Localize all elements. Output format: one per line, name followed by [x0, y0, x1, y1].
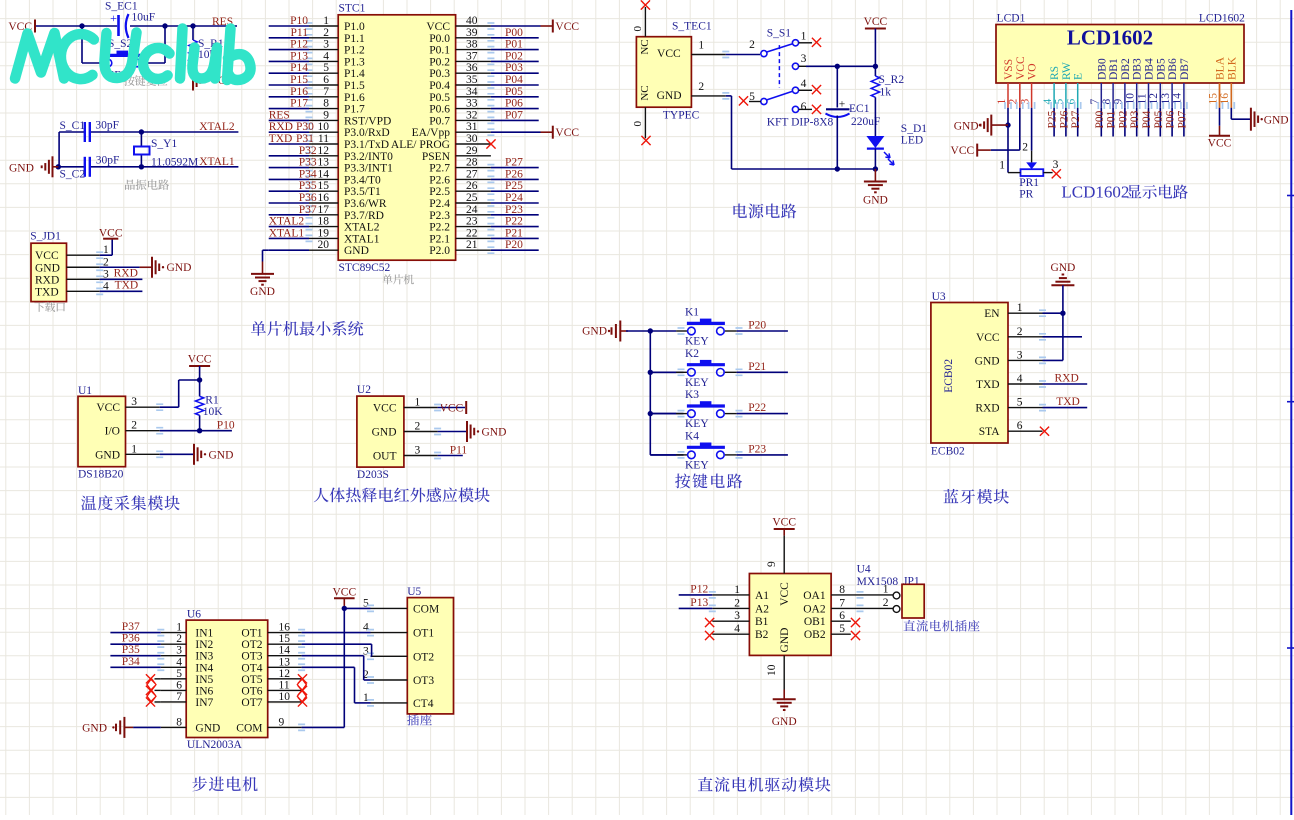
svg-text:VCC: VCC [96, 402, 120, 414]
svg-text:1: 1 [415, 397, 421, 409]
svg-text:OT1: OT1 [413, 628, 434, 640]
svg-text:P13: P13 [690, 597, 708, 609]
svg-text:VCC: VCC [772, 517, 796, 529]
svg-text:STA: STA [979, 426, 1000, 438]
svg-text:GND: GND [863, 195, 888, 207]
svg-text:DB1: DB1 [1108, 58, 1120, 80]
svg-text:BLA: BLA [1215, 56, 1227, 80]
svg-text:GND: GND [657, 90, 682, 102]
svg-text:10K: 10K [203, 406, 224, 418]
svg-text:P16: P16 [290, 86, 308, 98]
svg-text:21: 21 [466, 239, 478, 251]
svg-text:ALE/ PROG: ALE/ PROG [391, 139, 450, 151]
svg-text:4: 4 [1017, 373, 1023, 385]
svg-text:2: 2 [131, 420, 137, 432]
svg-text:12: 12 [318, 145, 330, 157]
svg-text:OT2: OT2 [241, 639, 262, 651]
svg-text:LCD1602: LCD1602 [1067, 25, 1153, 49]
svg-text:6: 6 [801, 101, 807, 113]
svg-text:ECB02: ECB02 [931, 446, 965, 458]
svg-text:4: 4 [176, 656, 182, 668]
svg-text:GND: GND [209, 450, 234, 462]
svg-text:+: + [110, 11, 117, 25]
svg-text:GND: GND [1264, 115, 1289, 127]
svg-text:P01: P01 [1106, 110, 1118, 128]
svg-text:XTAL1: XTAL1 [199, 156, 235, 168]
svg-text:IN1: IN1 [195, 628, 213, 640]
svg-text:P03: P03 [1129, 110, 1141, 128]
svg-text:PR: PR [1019, 189, 1033, 201]
svg-text:P2.5: P2.5 [429, 186, 450, 198]
svg-text:P14: P14 [290, 62, 308, 74]
svg-text:5: 5 [323, 62, 329, 74]
svg-text:P21: P21 [748, 361, 766, 373]
svg-text:GND: GND [167, 262, 192, 274]
svg-text:30pF: 30pF [95, 120, 119, 132]
svg-text:VCC: VCC [332, 587, 356, 599]
svg-text:P0.0: P0.0 [429, 33, 450, 45]
svg-text:P26: P26 [1058, 110, 1070, 128]
svg-text:P1.3: P1.3 [344, 56, 365, 68]
svg-text:15: 15 [318, 180, 330, 192]
svg-text:LCD1602: LCD1602 [1061, 183, 1129, 202]
svg-text:4: 4 [323, 50, 329, 62]
svg-text:3: 3 [1019, 99, 1031, 105]
svg-text:STC89C52: STC89C52 [339, 262, 391, 274]
svg-text:P23: P23 [748, 443, 766, 455]
svg-text:A2: A2 [755, 603, 769, 615]
svg-text:4: 4 [734, 623, 740, 635]
svg-text:6: 6 [323, 74, 329, 86]
svg-text:XTAL1: XTAL1 [269, 227, 305, 239]
svg-text:P36: P36 [299, 192, 317, 204]
svg-text:S_C1: S_C1 [60, 120, 86, 132]
svg-text:32: 32 [466, 109, 478, 121]
svg-text:P12: P12 [690, 584, 708, 596]
svg-text:1: 1 [734, 584, 740, 596]
svg-text:5: 5 [1017, 397, 1023, 409]
svg-text:P01: P01 [505, 39, 523, 51]
svg-text:P03: P03 [505, 62, 523, 74]
svg-text:DB4: DB4 [1144, 58, 1156, 80]
svg-text:12: 12 [279, 668, 291, 680]
svg-text:GND: GND [1050, 262, 1075, 274]
svg-text:P2.4: P2.4 [429, 198, 450, 210]
svg-text:VCC: VCC [1015, 56, 1027, 80]
svg-text:10: 10 [318, 121, 330, 133]
svg-text:2: 2 [415, 421, 421, 433]
svg-text:D203S: D203S [357, 469, 389, 481]
svg-text:P35: P35 [299, 180, 317, 192]
svg-text:NC: NC [639, 39, 651, 54]
svg-text:VCC: VCC [1208, 137, 1232, 149]
svg-text:P25: P25 [505, 180, 523, 192]
svg-text:VCC: VCC [555, 21, 579, 33]
svg-text:RXD: RXD [269, 121, 293, 133]
svg-text:2: 2 [1022, 142, 1028, 154]
svg-text:GND: GND [954, 121, 979, 133]
svg-text:P0.1: P0.1 [429, 45, 450, 57]
svg-text:P34: P34 [299, 168, 317, 180]
svg-text:11: 11 [318, 133, 329, 145]
svg-text:2: 2 [323, 27, 329, 39]
svg-text:16: 16 [279, 622, 291, 634]
svg-text:S_TEC1: S_TEC1 [672, 21, 712, 33]
svg-text:S_C2: S_C2 [60, 169, 86, 181]
svg-text:P12: P12 [290, 39, 308, 51]
svg-text:DB0: DB0 [1096, 58, 1108, 80]
svg-text:GND: GND [9, 163, 34, 175]
svg-text:U6: U6 [187, 609, 201, 621]
svg-text:P3.7/RD: P3.7/RD [344, 210, 384, 222]
svg-text:COM: COM [236, 722, 262, 734]
svg-text:KEY: KEY [685, 418, 709, 430]
svg-text:0: 0 [632, 26, 644, 32]
svg-text:P34: P34 [122, 656, 140, 668]
svg-text:P0.4: P0.4 [429, 80, 450, 92]
svg-text:16: 16 [1219, 93, 1231, 105]
svg-text:KEY: KEY [685, 336, 709, 348]
svg-text:VCC: VCC [555, 127, 579, 139]
svg-text:TXD: TXD [269, 133, 293, 145]
svg-text:5: 5 [1054, 99, 1066, 105]
svg-text:S_S2: S_S2 [108, 38, 133, 50]
svg-text:P11: P11 [450, 445, 468, 457]
svg-text:VCC: VCC [951, 145, 975, 157]
svg-text:OT6: OT6 [241, 685, 262, 697]
svg-text:3: 3 [363, 645, 369, 657]
svg-text:P02: P02 [1117, 110, 1129, 128]
svg-text:GND: GND [344, 245, 369, 257]
svg-text:IN4: IN4 [195, 662, 213, 674]
svg-text:2: 2 [749, 39, 755, 51]
svg-text:TXD: TXD [115, 280, 139, 292]
svg-text:P0.6: P0.6 [429, 104, 450, 116]
svg-text:CT4: CT4 [413, 698, 434, 710]
svg-text:TXD: TXD [976, 379, 1000, 391]
svg-text:P0.2: P0.2 [429, 56, 450, 68]
svg-text:KEY: KEY [685, 459, 709, 471]
svg-text:STC1: STC1 [339, 3, 366, 15]
svg-text:P00: P00 [505, 27, 523, 39]
svg-text:E: E [1073, 73, 1085, 80]
svg-text:IN3: IN3 [195, 651, 213, 663]
svg-text:3: 3 [131, 396, 137, 408]
svg-text:GND: GND [779, 628, 791, 653]
svg-text:VCC: VCC [779, 582, 791, 606]
svg-text:P1.6: P1.6 [344, 92, 365, 104]
svg-text:P04: P04 [505, 74, 523, 86]
svg-text:P2.3: P2.3 [429, 210, 450, 222]
svg-text:25: 25 [466, 192, 478, 204]
svg-text:P36: P36 [122, 633, 140, 645]
svg-text:P0.7: P0.7 [429, 115, 450, 127]
svg-text:P06: P06 [1165, 110, 1177, 128]
svg-text:5: 5 [176, 668, 182, 680]
svg-text:LCD1: LCD1 [997, 12, 1026, 24]
svg-text:P31: P31 [296, 133, 314, 145]
svg-text:17: 17 [318, 204, 330, 216]
svg-text:P1.1: P1.1 [344, 33, 365, 45]
svg-text:OT3: OT3 [241, 651, 262, 663]
svg-text:XTAL2: XTAL2 [269, 216, 305, 228]
svg-text:LCD1602: LCD1602 [1199, 12, 1245, 24]
svg-text:VCC: VCC [35, 250, 59, 262]
svg-text:OB2: OB2 [804, 629, 826, 641]
svg-text:11.0592M: 11.0592M [151, 157, 198, 169]
svg-text:RXD: RXD [975, 403, 999, 415]
svg-text:3: 3 [1017, 349, 1023, 361]
svg-text:37: 37 [466, 50, 478, 62]
svg-text:P04: P04 [1141, 110, 1153, 128]
svg-text:VCC: VCC [426, 21, 450, 33]
svg-text:P37: P37 [299, 204, 317, 216]
svg-text:19: 19 [318, 227, 330, 239]
svg-text:18: 18 [318, 216, 330, 228]
svg-text:DS18B20: DS18B20 [78, 469, 124, 481]
svg-text:ECB02: ECB02 [943, 359, 955, 393]
svg-text:1: 1 [883, 584, 889, 596]
svg-text:P3.6/WR: P3.6/WR [344, 198, 387, 210]
svg-text:34: 34 [466, 86, 478, 98]
svg-text:9: 9 [323, 109, 329, 121]
svg-text:8: 8 [176, 716, 182, 728]
svg-text:OA2: OA2 [803, 603, 826, 615]
svg-text:31: 31 [466, 121, 478, 133]
svg-text:P07: P07 [1176, 110, 1188, 128]
svg-text:GND: GND [482, 427, 507, 439]
svg-text:GND: GND [82, 723, 107, 735]
svg-text:B2: B2 [755, 629, 769, 641]
svg-text:EA/Vpp: EA/Vpp [412, 127, 451, 139]
svg-text:GND: GND [772, 716, 797, 728]
svg-text:PSEN: PSEN [422, 151, 451, 163]
svg-text:P05: P05 [505, 86, 523, 98]
svg-text:23: 23 [466, 216, 478, 228]
svg-text:2: 2 [176, 633, 182, 645]
svg-text:2: 2 [1017, 326, 1023, 338]
svg-text:P3.0/RxD: P3.0/RxD [344, 127, 390, 139]
svg-text:OT7: OT7 [241, 697, 262, 709]
svg-text:VCC: VCC [373, 403, 397, 415]
svg-text:P2.7: P2.7 [429, 163, 450, 175]
svg-text:10: 10 [1125, 93, 1137, 105]
svg-text:1k: 1k [880, 87, 892, 99]
svg-text:2: 2 [1008, 99, 1020, 105]
svg-text:3: 3 [734, 610, 740, 622]
svg-text:P23: P23 [505, 204, 523, 216]
svg-text:XTAL1: XTAL1 [344, 233, 380, 245]
svg-text:VCC: VCC [657, 48, 681, 60]
svg-text:VCC: VCC [188, 354, 212, 366]
svg-text:6: 6 [1017, 420, 1023, 432]
svg-text:OB1: OB1 [804, 616, 826, 628]
svg-text:RS: RS [1049, 66, 1061, 80]
svg-text:KFT DIP-8X8: KFT DIP-8X8 [767, 117, 834, 129]
svg-text:DB7: DB7 [1179, 58, 1191, 80]
svg-text:VCC: VCC [99, 228, 123, 240]
svg-text:RES: RES [269, 109, 290, 121]
svg-text:GND: GND [95, 449, 120, 461]
svg-text:K1: K1 [685, 307, 699, 319]
svg-text:P25: P25 [1047, 110, 1059, 128]
svg-text:OA1: OA1 [803, 590, 826, 602]
svg-text:14: 14 [1172, 93, 1184, 105]
svg-text:I/O: I/O [105, 426, 120, 438]
svg-text:P2.0: P2.0 [429, 245, 450, 257]
svg-text:U4: U4 [857, 564, 871, 576]
svg-text:VSS: VSS [1003, 59, 1015, 80]
svg-text:K4: K4 [685, 430, 699, 442]
svg-text:35: 35 [466, 74, 478, 86]
svg-text:5: 5 [839, 623, 845, 635]
svg-text:GND: GND [582, 326, 607, 338]
svg-text:DB6: DB6 [1167, 58, 1179, 80]
svg-text:27: 27 [466, 168, 478, 180]
svg-text:15: 15 [279, 633, 291, 645]
svg-text:S_S1: S_S1 [767, 28, 792, 40]
svg-text:14: 14 [318, 168, 330, 180]
svg-text:26: 26 [466, 180, 478, 192]
svg-text:MX1508: MX1508 [857, 576, 899, 588]
svg-text:P37: P37 [122, 621, 140, 633]
svg-text:1: 1 [999, 160, 1005, 172]
svg-text:22: 22 [466, 227, 478, 239]
svg-text:38: 38 [466, 39, 478, 51]
svg-text:P3.2/INT0: P3.2/INT0 [344, 151, 393, 163]
svg-text:P33: P33 [299, 157, 317, 169]
svg-text:P11: P11 [291, 27, 309, 39]
svg-text:2: 2 [734, 597, 740, 609]
svg-text:11: 11 [279, 679, 290, 691]
svg-text:11: 11 [1136, 93, 1148, 104]
svg-text:P3.1/TxD: P3.1/TxD [344, 139, 389, 151]
svg-text:1: 1 [996, 99, 1008, 105]
svg-text:P3.4/T0: P3.4/T0 [344, 174, 381, 186]
svg-text:DB2: DB2 [1120, 58, 1132, 80]
svg-text:P0.5: P0.5 [429, 92, 450, 104]
svg-text:COM: COM [413, 603, 439, 615]
svg-text:0: 0 [632, 121, 644, 127]
svg-text:EN: EN [984, 308, 1000, 320]
svg-text:VCC: VCC [440, 403, 464, 415]
svg-text:33: 33 [466, 98, 478, 110]
svg-text:29: 29 [466, 145, 478, 157]
svg-text:P0.3: P0.3 [429, 68, 450, 80]
svg-text:OT2: OT2 [413, 651, 434, 663]
svg-text:OUT: OUT [373, 451, 397, 463]
svg-text:RW: RW [1061, 62, 1073, 80]
svg-text:P1.7: P1.7 [344, 104, 365, 116]
svg-text:9: 9 [766, 561, 778, 567]
svg-text:P2.2: P2.2 [429, 222, 450, 234]
svg-text:K2: K2 [685, 348, 699, 360]
svg-text:RXD: RXD [114, 268, 138, 280]
svg-text:NC: NC [639, 85, 651, 100]
svg-text:7: 7 [176, 691, 182, 703]
svg-text:P35: P35 [122, 644, 140, 656]
svg-text:20: 20 [318, 239, 330, 251]
svg-text:IN7: IN7 [195, 697, 213, 709]
svg-text:S_R2: S_R2 [879, 74, 905, 86]
svg-text:P26: P26 [505, 168, 523, 180]
svg-text:P10: P10 [290, 15, 308, 27]
svg-text:10uF: 10uF [132, 12, 156, 24]
svg-text:R1: R1 [205, 395, 219, 407]
svg-text:OT3: OT3 [413, 675, 434, 687]
svg-text:3: 3 [801, 53, 807, 65]
svg-text:GND: GND [372, 427, 397, 439]
svg-text:GND: GND [35, 262, 60, 274]
svg-text:P00: P00 [1094, 110, 1106, 128]
svg-text:P1.4: P1.4 [344, 68, 365, 80]
svg-text:P10: P10 [217, 420, 235, 432]
svg-text:OT5: OT5 [241, 674, 262, 686]
svg-text:4: 4 [801, 78, 807, 90]
svg-text:1: 1 [176, 622, 182, 634]
svg-text:28: 28 [466, 157, 478, 169]
svg-text:IN5: IN5 [195, 674, 213, 686]
svg-text:10: 10 [766, 664, 778, 676]
svg-text:13: 13 [279, 656, 291, 668]
svg-text:BLK: BLK [1226, 56, 1238, 80]
svg-text:24: 24 [466, 204, 478, 216]
svg-text:PR1: PR1 [1019, 177, 1039, 189]
svg-text:RXD: RXD [1055, 373, 1079, 385]
svg-text:1: 1 [323, 15, 329, 27]
svg-text:S_JD1: S_JD1 [30, 231, 61, 243]
svg-text:P17: P17 [290, 98, 308, 110]
svg-text:S_Y1: S_Y1 [151, 138, 177, 150]
svg-text:VCC: VCC [864, 16, 888, 28]
svg-text:4: 4 [1042, 99, 1054, 105]
svg-text:GND: GND [250, 286, 275, 298]
svg-text:U3: U3 [932, 291, 946, 303]
svg-text:VO: VO [1027, 63, 1039, 80]
svg-text:U2: U2 [357, 384, 371, 396]
svg-text:P3.5/T1: P3.5/T1 [344, 186, 381, 198]
svg-text:B1: B1 [755, 616, 769, 628]
svg-text:P27: P27 [505, 157, 523, 169]
svg-text:1: 1 [1017, 302, 1023, 314]
svg-text:A1: A1 [755, 590, 769, 602]
svg-text:39: 39 [466, 27, 478, 39]
svg-text:GND: GND [195, 722, 220, 734]
svg-text:6: 6 [176, 679, 182, 691]
svg-text:P27: P27 [1070, 110, 1082, 128]
svg-text:14: 14 [279, 645, 291, 657]
svg-text:IN2: IN2 [195, 639, 213, 651]
svg-text:6: 6 [1066, 99, 1078, 105]
svg-text:P02: P02 [505, 50, 523, 62]
svg-text:P22: P22 [748, 402, 766, 414]
svg-text:7: 7 [323, 86, 329, 98]
svg-text:6: 6 [839, 610, 845, 622]
svg-text:1: 1 [131, 443, 137, 455]
svg-text:IN6: IN6 [195, 685, 213, 697]
svg-text:2: 2 [698, 81, 704, 93]
svg-text:2: 2 [883, 597, 889, 609]
svg-text:1: 1 [801, 31, 807, 43]
svg-text:13: 13 [318, 157, 330, 169]
svg-text:EC1: EC1 [849, 103, 870, 115]
svg-text:30: 30 [466, 133, 478, 145]
svg-text:P20: P20 [748, 320, 766, 332]
svg-text:12: 12 [1148, 93, 1160, 105]
svg-text:U5: U5 [407, 586, 421, 598]
svg-text:XTAL2: XTAL2 [344, 222, 380, 234]
svg-text:P05: P05 [1153, 110, 1165, 128]
